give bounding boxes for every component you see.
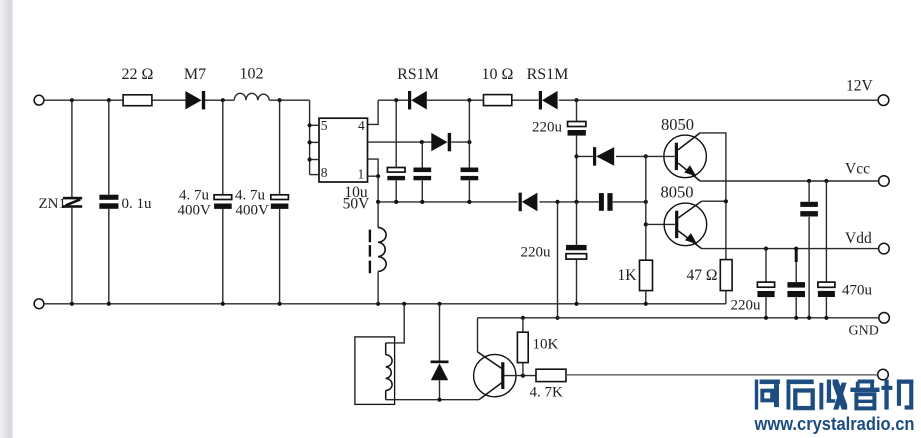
wire Q3 base lead — [504, 375, 536, 377]
output terminal GND — [879, 313, 890, 324]
inductor T1 primary winding — [377, 202, 379, 228]
input terminal J1 (AC in top) — [34, 95, 44, 105]
svg-text:RS1M: RS1M — [397, 66, 439, 83]
input terminal J2 (AC in bottom) — [34, 299, 44, 309]
wire mid rail segment A (pin1 col to D5) — [378, 201, 517, 203]
wire mid rail segment C (C7 to Q2 base column) — [613, 201, 646, 203]
output terminal Vdd — [879, 243, 890, 254]
wire bottom rail (J2 to 47ohm bottom) — [44, 303, 726, 305]
capacitor C2 4.7u 400V — [279, 100, 281, 195]
svg-text:5: 5 — [321, 118, 328, 133]
wire collector column to 47ohm — [725, 201, 727, 259]
wire 220u column to mid rail — [576, 156, 578, 202]
capacitor C4 — [421, 142, 423, 167]
output terminal FB (4.7K line) — [878, 369, 889, 380]
svg-text:8050: 8050 — [661, 115, 694, 134]
wire row156 left — [577, 155, 594, 157]
svg-text:www.crystalradio.cn: www.crystalradio.cn — [754, 413, 915, 434]
svg-text:4: 4 — [358, 118, 365, 133]
capacitor C10 (Vdd-GND) — [795, 249, 798, 262]
junction dot Q2 base — [644, 222, 648, 226]
wire D3 to cap column — [451, 141, 469, 143]
inductor T1 feedback winding — [386, 304, 405, 343]
svg-text:Vdd: Vdd — [845, 230, 872, 247]
svg-text:10 Ω: 10 Ω — [482, 66, 514, 83]
transistor Q3 (feedback) — [474, 354, 516, 396]
wire 4.7K to FB terminal — [566, 374, 878, 376]
capacitor 0.1u — [108, 100, 110, 195]
junction dots GND rail — [521, 316, 525, 320]
wire top rail segment C (M7 to L 102) — [204, 99, 234, 101]
wire pin stub row 159 — [368, 159, 379, 176]
wire top rail segment F (RS1M D1 to 10ohm) — [427, 99, 484, 101]
junction dots Vcc rail — [807, 179, 811, 183]
svg-text:220u: 220u — [532, 120, 563, 136]
svg-text:22 Ω: 22 Ω — [122, 66, 154, 83]
resistor R 4.7K — [536, 369, 566, 381]
diode D6 (points up) — [439, 304, 441, 361]
capacitor C7 (series coupling) — [599, 193, 604, 211]
wire GND rail — [478, 317, 879, 319]
watermark logo 矿石收音机 (drawn) — [755, 380, 914, 410]
wire pin4 riser — [368, 100, 379, 124]
junction dots top rail — [70, 98, 74, 102]
inductor L 102 — [234, 93, 269, 100]
svg-text:10K: 10K — [533, 337, 559, 353]
svg-text:12V: 12V — [846, 78, 874, 95]
svg-text:GND: GND — [849, 324, 879, 339]
op-amp/控制 IC U1 box — [319, 118, 368, 182]
wire IC left riser and pin stubs — [309, 100, 311, 174]
svg-text:Vcc: Vcc — [845, 161, 870, 178]
transistor Q1 8050 — [664, 135, 707, 178]
wire Q2 emitter / Vdd rail — [702, 248, 879, 250]
diode M7 — [185, 91, 201, 109]
svg-text:4. 7u: 4. 7u — [235, 188, 266, 204]
junction dot base/10K/4.7K — [521, 374, 525, 378]
junction dots Vdd rail — [764, 247, 768, 251]
capacitor C8 220u — [576, 202, 578, 245]
svg-text:1: 1 — [357, 167, 364, 182]
varistor ZN1 — [71, 100, 73, 197]
resistor R 10ohm — [484, 95, 512, 106]
svg-text:4. 7K: 4. 7K — [530, 385, 564, 401]
resistor R 1K — [645, 259, 647, 261]
wire Q1 base lead — [646, 155, 675, 157]
svg-text:50V: 50V — [343, 196, 371, 213]
transistor Q2 8050 — [664, 203, 707, 246]
junction dots bottom rail — [70, 302, 74, 306]
diode D4 (points left) — [593, 147, 596, 166]
svg-text:1K: 1K — [618, 267, 638, 284]
junction dot — [644, 200, 648, 204]
svg-text:220u: 220u — [731, 298, 762, 314]
svg-text:220u: 220u — [521, 245, 552, 261]
wire top rail segment D (L 102 to IC left riser) — [269, 99, 309, 101]
resistor R 47ohm — [720, 260, 732, 291]
wire top rail segment H (RS1M D2 to 12V terminal) — [559, 99, 878, 101]
wire mid rail segment B (D5 to series cap) — [539, 201, 599, 203]
wire top rail segment E (pin4 to RS1M D1) — [378, 99, 408, 101]
wire Q2 base column — [645, 156, 647, 260]
junction dots mid rail B — [555, 200, 559, 204]
svg-text:470u: 470u — [842, 283, 873, 299]
diode RS1M D1 (points left) — [408, 91, 411, 110]
svg-text:47 Ω: 47 Ω — [687, 267, 718, 284]
svg-text:102: 102 — [240, 66, 264, 83]
capacitor C3 10u 50V — [395, 100, 397, 167]
svg-text:400V: 400V — [178, 203, 212, 219]
resistor R 10K — [522, 318, 524, 332]
output terminal Vcc — [879, 176, 890, 187]
junction dots mid rail A — [376, 200, 380, 204]
svg-text:RS1M: RS1M — [527, 66, 569, 83]
junction dot — [574, 154, 578, 158]
output terminal 12V — [878, 95, 889, 106]
svg-text:0. 1u: 0. 1u — [122, 196, 153, 212]
junction dot pin1 node — [376, 174, 380, 178]
svg-text:8: 8 — [321, 165, 328, 180]
diode D3 (points right) — [431, 133, 447, 151]
junction dot D6 bottom — [437, 398, 441, 402]
core line (dashed) of winding — [369, 230, 371, 243]
junction dots on IC left riser — [308, 123, 312, 127]
wire Q2 collector — [702, 200, 726, 202]
wire pin1 stub — [368, 175, 379, 177]
capacitor C9 220u (Vdd-GND) — [765, 249, 767, 283]
wire D4 to Q1 base node — [616, 155, 646, 157]
wire Q1 emitter / Vcc rail — [700, 180, 878, 182]
transformer T1 secondary box — [355, 337, 395, 405]
svg-text:8050: 8050 — [661, 183, 694, 202]
wire pin1 column down to mid rail — [377, 176, 379, 202]
wire top rail segment A (J1 to R 22ohm) — [44, 99, 123, 101]
wire top rail segment B (R 22ohm to M7) — [152, 99, 186, 101]
wire Q1 collector to column — [700, 133, 726, 202]
svg-text:400V: 400V — [236, 203, 270, 219]
capacitor C1 4.7u 400V — [222, 100, 224, 195]
wire Q2 base lead — [646, 223, 675, 225]
svg-text:ZN1: ZN1 — [39, 196, 67, 212]
resistor R 22ohm — [123, 95, 152, 106]
junction dot feedback/GND row — [555, 316, 559, 320]
junction dot collectors — [724, 199, 728, 203]
junction dots row142 — [420, 140, 424, 144]
capacitor C11 (Vcc-Vdd) — [808, 181, 810, 202]
capacitor C5 — [468, 100, 470, 167]
junction dot Q1 base node — [644, 154, 648, 158]
diode D5 (points left) — [519, 193, 522, 212]
capacitor C12 470u (Vcc-GND) — [825, 181, 827, 282]
capacitor C6 220u — [576, 100, 578, 121]
diode RS1M D2 (points left) — [539, 91, 542, 110]
wire pin row to diode D3 (y=142) — [368, 141, 432, 143]
wire feedback column (mid rail to GND row) — [557, 202, 559, 318]
svg-text:4. 7u: 4. 7u — [179, 188, 210, 204]
wire top rail segment G (10ohm to RS1M D2) — [512, 99, 539, 101]
wire emitter line (winding to Q3) — [386, 399, 479, 401]
svg-text:M7: M7 — [184, 66, 206, 83]
wire Q3 collector riser to GND row — [477, 318, 479, 352]
